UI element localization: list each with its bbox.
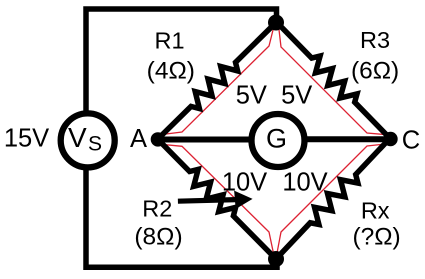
annotation line (node A to bottom node, red) [158,144,273,259]
resistor R2 (variable) [158,139,276,259]
svg-text:S: S [88,132,102,155]
node C [383,132,397,146]
svg-text:(4Ω): (4Ω) [147,57,195,84]
svg-text:R1: R1 [154,27,184,53]
resistor R1 [158,22,277,139]
svg-text:R2: R2 [142,196,172,222]
node bottom [268,251,284,267]
galvanometer G [252,114,305,167]
svg-text:15V: 15V [4,124,49,152]
annotation line (node C to bottom node, red) [277,144,390,260]
node A [151,132,165,146]
wire (galvanometer to node C) [304,136,391,142]
svg-text:R3: R3 [360,27,390,53]
annotation line (top node to node C, red) [279,22,390,135]
svg-text:10V: 10V [222,169,267,197]
svg-text:Rx: Rx [361,198,390,224]
svg-text:5V: 5V [281,81,312,109]
svg-text:10V: 10V [282,169,327,197]
annotation line (node A to top node, red) [158,22,274,135]
svg-text:V: V [68,122,87,153]
svg-text:C: C [402,127,420,155]
svg-text:5V: 5V [236,81,267,109]
wire (node A to galvanometer) [158,137,252,143]
resistor R3 [277,22,390,138]
node top [268,15,284,31]
svg-text:(6Ω): (6Ω) [351,57,399,84]
svg-text:(?Ω): (?Ω) [352,224,400,251]
resistor Rx [276,138,390,259]
svg-text:(8Ω): (8Ω) [134,224,182,251]
wire (VS top to top node via top-left loop) [86,9,277,116]
svg-text:A: A [130,125,147,153]
svg-text:G: G [266,124,287,154]
wire (VS bottom to bottom node via bottom-left loop) [86,166,277,267]
voltage source U1 (VS) [61,113,115,167]
arrow (R2 wiper) [178,191,252,208]
